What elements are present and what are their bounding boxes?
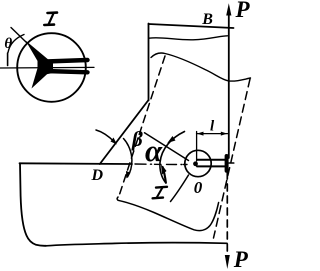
force line P top xyxy=(228,13,230,158)
blade dark arm lower-left xyxy=(32,62,51,89)
axis tick right of cap xyxy=(229,162,234,164)
beta angle arc piece (left, arrow onto solid edge) xyxy=(96,130,115,142)
arrow P down xyxy=(225,255,230,269)
lower plate bottom edge xyxy=(46,243,227,246)
svg-text:l: l xyxy=(210,119,215,135)
dimension l line xyxy=(197,133,228,135)
dimension arrow left xyxy=(197,132,204,136)
svg-text:θ: θ xyxy=(4,36,12,52)
section callout I near O: arrow stroke below axis xyxy=(163,167,166,183)
blade dark arm upper-left xyxy=(26,41,51,73)
section label I xyxy=(153,187,167,199)
svg-text:B: B xyxy=(201,11,213,28)
theta reference tick xyxy=(7,53,9,66)
alpha arrow upper xyxy=(167,136,175,143)
blade displaced edge (left dashed line) xyxy=(119,56,165,196)
svg-text:0: 0 xyxy=(194,178,203,197)
force line P bottom (dashed) xyxy=(226,172,228,253)
svg-text:P: P xyxy=(235,0,251,22)
blade displaced edge (right dashed line) xyxy=(214,79,251,238)
upper plate top edge xyxy=(149,24,234,28)
blade edge extension line xyxy=(11,28,27,44)
lower plate left edge xyxy=(20,163,46,246)
axis line through detail circle xyxy=(0,66,94,69)
svg-text:P: P xyxy=(233,247,249,271)
theta angle arc xyxy=(8,35,24,53)
upper plate left edge xyxy=(148,24,150,101)
blade center mass xyxy=(38,57,54,76)
blade solid inclined edge to D xyxy=(100,100,149,164)
slot top line xyxy=(197,159,226,161)
blade wedge lower edge xyxy=(46,71,88,72)
upper break (wavy) line 2 xyxy=(151,53,251,81)
alpha angle arc xyxy=(160,132,185,183)
blade wedge upper edge xyxy=(46,60,88,62)
detail circle xyxy=(17,33,86,102)
svg-text:D: D xyxy=(91,167,104,184)
shear crack curve xyxy=(117,197,219,231)
svg-text:β: β xyxy=(131,127,143,151)
svg-text:α: α xyxy=(145,133,163,168)
section leader line to circle O xyxy=(171,175,189,202)
center junction dot xyxy=(193,161,198,166)
arrow P up xyxy=(226,3,231,15)
slot bottom line xyxy=(197,165,226,167)
dimension l extension line xyxy=(196,132,198,162)
axis dash-dot continuation to O xyxy=(135,163,187,166)
detail view label I xyxy=(44,13,57,25)
slot end cap xyxy=(225,156,229,171)
beta angle arc piece (right, arrow onto dashed edge) xyxy=(124,139,132,178)
dimension arrow right xyxy=(221,132,228,136)
pivot circle O xyxy=(185,150,211,176)
lower plate top edge (solid part through D) xyxy=(20,162,133,165)
alpha side ray toward O xyxy=(145,133,189,161)
upper break (wavy) line 1 xyxy=(149,36,228,40)
alpha arrow lower xyxy=(161,165,167,175)
